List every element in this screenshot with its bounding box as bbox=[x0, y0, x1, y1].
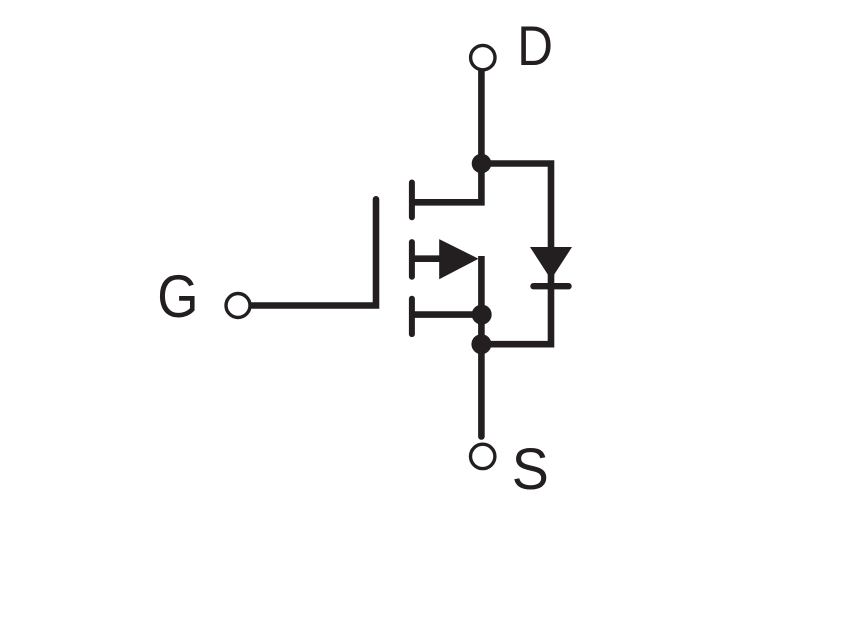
svg-text:G: G bbox=[157, 264, 198, 331]
diode D1 cathode bar bbox=[534, 283, 569, 289]
wire MOSFET source stub (bottom bar to source junction) bbox=[411, 311, 482, 318]
node diode-return junction bbox=[471, 334, 491, 354]
terminal circle S bbox=[471, 444, 495, 468]
terminal circle G bbox=[226, 294, 250, 318]
node source-lead junction bbox=[472, 305, 492, 325]
wire MOSFET body/arrow lead bbox=[411, 255, 444, 262]
wire diode anode branch to source junction (bottom) bbox=[482, 266, 552, 344]
transistor Q1 body arrow (points to channel) bbox=[439, 239, 478, 279]
wire source lead (source junction down toward S terminal) bbox=[478, 344, 485, 436]
wire drain lead (D terminal to drain junction) bbox=[478, 70, 485, 164]
svg-text:S: S bbox=[512, 437, 549, 503]
node drain junction bbox=[472, 154, 492, 174]
terminal circle D bbox=[471, 45, 495, 69]
transistor Q1 gate bar (drain side) bbox=[409, 183, 415, 218]
wire MOSFET drain stub (top bar to drain junction) bbox=[411, 164, 482, 203]
wire MOSFET body vertical (arrow tip down to source junction) bbox=[478, 256, 485, 344]
transistor Q1 gate bar (source side) bbox=[409, 299, 415, 334]
wire gate lead (G terminal to gate electrode) bbox=[251, 199, 377, 305]
svg-text:D: D bbox=[517, 15, 553, 78]
transistor Q1 gate bar (body, middle) bbox=[409, 242, 415, 277]
diode D1 anode triangle bbox=[530, 247, 572, 280]
wire drain junction to diode cathode branch (top) bbox=[482, 164, 552, 251]
